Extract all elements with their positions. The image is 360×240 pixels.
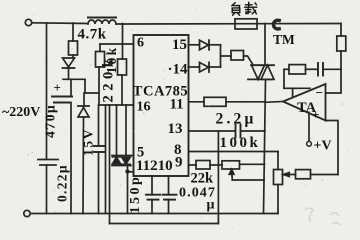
svg-text:100k: 100k <box>220 135 261 151</box>
svg-text:4.7k: 4.7k <box>78 27 107 43</box>
svg-text:470μ: 470μ <box>43 104 58 138</box>
svg-text:2.2μ: 2.2μ <box>216 111 257 128</box>
svg-text:+: + <box>54 80 61 95</box>
svg-text:150p: 150p <box>128 175 143 214</box>
svg-text:15: 15 <box>172 37 187 53</box>
svg-text:μ: μ <box>207 198 215 213</box>
svg-text:~220V: ~220V <box>2 105 40 120</box>
svg-text:·14: ·14 <box>168 62 189 78</box>
svg-text:13: 13 <box>168 121 183 137</box>
svg-text:6: 6 <box>137 36 144 51</box>
svg-text:TM: TM <box>273 32 295 47</box>
svg-text:15V: 15V <box>81 128 96 156</box>
svg-text:22k: 22k <box>191 171 215 187</box>
svg-text:10k: 10k <box>104 46 119 74</box>
svg-text:−: − <box>316 85 323 100</box>
svg-text:11210: 11210 <box>136 158 173 174</box>
svg-text:+V: +V <box>314 139 332 154</box>
svg-text:9: 9 <box>175 155 183 171</box>
svg-text:16: 16 <box>137 100 151 115</box>
svg-text:+: + <box>312 107 319 122</box>
svg-text:11: 11 <box>170 96 184 112</box>
svg-text:0.22μ: 0.22μ <box>55 164 70 202</box>
